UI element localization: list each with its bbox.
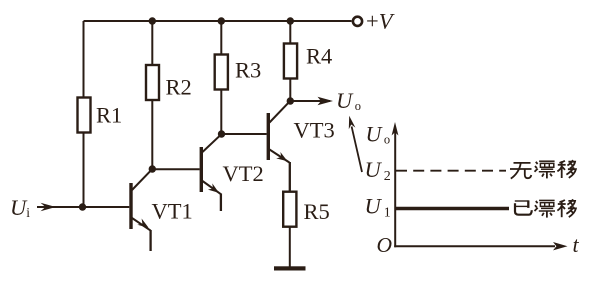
node VT1 collector / R2 [149,165,156,172]
svg-text:VT3: VT3 [294,118,335,143]
line U1 drifted solid [396,207,509,210]
svg-text:R5: R5 [304,199,330,224]
node rail R3 [218,17,225,24]
resistor R5 [283,192,296,267]
wire VT1 collector to VT2 base [152,168,199,170]
svg-text:R1: R1 [96,103,122,128]
svg-text:U1: U1 [365,194,391,221]
svg-text:R2: R2 [166,74,192,99]
graph y-axis [394,130,396,247]
text drifted (yi piao yi) [515,199,576,217]
node rail R2 [149,17,156,24]
resistor R1 [78,98,91,133]
svg-text:t: t [573,232,580,257]
transistor VT2 [200,134,222,211]
terminal +V open circle [353,17,362,26]
svg-text:U2: U2 [365,157,391,184]
resistor R3 [215,21,228,134]
hanzi yi3 [515,200,532,214]
transistor VT1 [129,169,152,251]
text no-drift (wu piao yi) [510,160,576,179]
wire +V top rail [84,20,352,22]
hanzi piao (row1) [535,161,556,178]
svg-text:Ui: Ui [10,195,30,220]
hanzi yi (row2) [557,199,576,217]
annotation arrow to Uo [352,127,362,173]
node input junction [79,203,86,210]
node VT2 collector / R3 [218,130,225,137]
wire input with arrow [37,206,129,208]
wire left vertical from rail to input node [83,21,85,98]
resistor R4 [284,21,297,101]
svg-text:O: O [377,233,393,257]
svg-text:Uo: Uo [366,122,391,147]
node VT3 collector / R4 output [287,97,294,104]
resistor R2 [146,21,159,169]
wire VT2 collector to VT3 base [222,133,267,135]
svg-text:Uo: Uo [336,88,361,113]
svg-text:R4: R4 [306,43,332,68]
hanzi yi (row1) [557,160,576,178]
svg-text:R3: R3 [235,58,261,83]
ground [274,266,306,270]
svg-text:+V: +V [366,9,395,34]
hanzi wu [510,163,532,179]
wire output arrow [290,100,330,102]
line U2 no-drift dashed [396,170,506,172]
transistor VT3 [267,101,290,192]
graph x-axis [394,245,555,247]
node rail R4 [287,17,294,24]
svg-text:VT1: VT1 [152,199,193,224]
hanzi piao (row2) [535,200,556,217]
svg-text:VT2: VT2 [223,161,264,186]
